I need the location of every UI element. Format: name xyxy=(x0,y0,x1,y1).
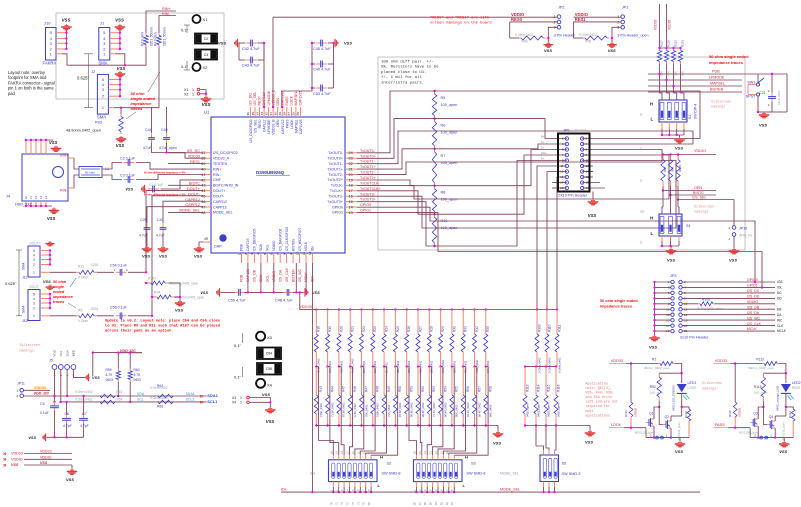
svg-text:Application: Application xyxy=(586,382,608,387)
wire S1 pin bottom xyxy=(661,122,663,129)
svg-text:DOUT+: DOUT+ xyxy=(30,241,41,245)
svg-text:R31: R31 xyxy=(464,326,468,332)
svg-text:DB: DB xyxy=(777,307,781,311)
resistor R32 xyxy=(474,310,476,334)
capacitor C6 4.7pF xyxy=(66,414,68,419)
resistor R119 gate pull xyxy=(630,364,632,403)
svg-text:H: H xyxy=(650,216,653,221)
wire array col to S2 pin xyxy=(355,426,364,456)
junction xyxy=(439,365,441,367)
resistor R57 xyxy=(474,367,476,395)
wire array col to S2 pin xyxy=(371,426,398,456)
svg-text:I2S_DC: I2S_DC xyxy=(187,149,201,153)
svg-text:0.1": 0.1" xyxy=(234,343,242,348)
junction xyxy=(25,205,27,207)
svg-text:I2S_CLK: I2S_CLK xyxy=(285,267,289,282)
svg-text:RIN-: RIN- xyxy=(213,173,221,177)
svg-text:MCLK: MCLK xyxy=(777,329,787,333)
svg-text:R20: R20 xyxy=(339,326,343,332)
svg-text:I2S_WC/GPIO7: I2S_WC/GPIO7 xyxy=(298,228,302,251)
svg-text:MCLK: MCLK xyxy=(747,327,757,331)
svg-text:31: 31 xyxy=(269,112,273,116)
svg-text:VSS: VSS xyxy=(585,440,593,445)
svg-text:VDD33: VDD33 xyxy=(299,304,313,309)
svg-text:R25: R25 xyxy=(396,326,400,332)
resistor R59 4.7K xyxy=(117,368,119,371)
junction xyxy=(433,90,435,92)
wire J5 SDA pin xyxy=(66,369,68,396)
svg-text:5: 5 xyxy=(263,253,267,255)
svg-text:BISTEN: BISTEN xyxy=(291,269,295,282)
wire array col to S2 pin xyxy=(330,426,339,456)
svg-text:R112: R112 xyxy=(756,358,764,362)
svg-text:Q4: Q4 xyxy=(769,415,774,419)
connector J12 SMA xyxy=(28,290,40,321)
svg-text:115K_0402: 115K_0402 xyxy=(353,403,357,417)
svg-text:0402_open: 0402_open xyxy=(546,403,550,417)
wire J11 gnd pins xyxy=(49,251,51,265)
wire TxOUT1- to JP5 xyxy=(357,131,693,164)
capacitor C45 4.7uF xyxy=(316,42,321,44)
wire C56 to DOUT- riser xyxy=(128,315,152,317)
svg-text:TxCLK-: TxCLK- xyxy=(331,184,344,188)
wire TxCLK- to JP5 xyxy=(357,155,669,199)
svg-text:80.6K_0402: 80.6K_0402 xyxy=(421,402,425,417)
svg-text:VDDIO: VDDIO xyxy=(668,19,672,30)
resistor R28 xyxy=(428,310,430,334)
wire R60 to SCL row xyxy=(129,382,131,402)
svg-text:98ohm_0402_open: 98ohm_0402_open xyxy=(644,366,670,370)
wire S1 bottom merge xyxy=(662,134,684,136)
svg-text:FAKRA: FAKRA xyxy=(43,61,57,66)
svg-text:20: 20 xyxy=(349,173,353,177)
svg-text:0 Ohm_0402: 0 Ohm_0402 xyxy=(557,357,561,373)
svg-text:R113: R113 xyxy=(525,384,529,392)
capacitor C53 4.7uF xyxy=(316,87,321,89)
svg-text:SDA: SDA xyxy=(137,392,145,396)
svg-text:DOUT-: DOUT- xyxy=(30,285,40,289)
dimension 0.625 inch xyxy=(88,54,90,108)
svg-text:VSS: VSS xyxy=(344,41,352,46)
wire Q2 drain xyxy=(670,416,672,421)
wire S2 pin stub xyxy=(370,455,372,460)
wire S3 pin bottom xyxy=(448,482,450,487)
ground VSS above J1 xyxy=(119,24,121,25)
wire JP3 odd pins bus xyxy=(654,282,656,335)
svg-text:R96: R96 xyxy=(522,39,528,43)
svg-text:TxOUT1+: TxOUT1+ xyxy=(360,165,376,169)
svg-text:RIN-: RIN- xyxy=(60,189,68,193)
resistor R46 xyxy=(349,367,351,395)
svg-text:R30: R30 xyxy=(452,326,456,332)
svg-text:TxOUT3-: TxOUT3- xyxy=(328,195,344,199)
wire CAPP12 to C25 xyxy=(147,207,203,223)
wire C7 dn xyxy=(83,424,85,438)
svg-text:0603: 0603 xyxy=(134,378,142,382)
IC U1 left pins 37-48 xyxy=(203,152,211,154)
svg-text:DOUT-: DOUT- xyxy=(213,195,225,199)
svg-text:VSS: VSS xyxy=(117,66,126,71)
ground VSS xyxy=(205,96,207,97)
svg-text:SW SMD-8: SW SMD-8 xyxy=(467,472,486,476)
junction xyxy=(311,63,313,65)
transistor Q1 BSS138 xyxy=(646,422,649,424)
svg-text:S5: S5 xyxy=(562,462,567,466)
svg-text:R118: R118 xyxy=(667,40,671,47)
svg-text:VSS: VSS xyxy=(675,146,683,151)
svg-text:28: 28 xyxy=(283,112,287,116)
IC U1 DS90UB926Q body xyxy=(211,117,345,253)
wire DOUT+ down xyxy=(146,190,203,272)
junction xyxy=(785,372,787,374)
wire pullup top rail xyxy=(660,47,681,49)
connector J11 SMA xyxy=(28,246,40,277)
wire VDD33 rail xyxy=(626,363,658,365)
junction xyxy=(548,491,550,493)
junction xyxy=(669,153,671,155)
wire R59/R60 drops xyxy=(117,353,119,369)
resistor R123 10K xyxy=(680,48,682,51)
svg-text:0402_open: 0402_open xyxy=(536,403,540,417)
wire bypass jog xyxy=(486,366,488,368)
junction xyxy=(428,365,430,367)
svg-text:R45: R45 xyxy=(342,386,346,392)
svg-text:3-: 3- xyxy=(640,241,643,245)
wire array col to S2 pin xyxy=(341,426,344,456)
svg-text:C53 4.7uF: C53 4.7uF xyxy=(313,92,331,96)
junction xyxy=(428,308,430,310)
svg-text:MODE_SEL: MODE_SEL xyxy=(179,209,200,213)
svg-text:100_open: 100_open xyxy=(441,198,458,202)
svg-text:VDD33: VDD33 xyxy=(40,450,52,454)
svg-text:namings: namings xyxy=(711,105,725,110)
svg-text:0402 LED_GREEN: 0402 LED_GREEN xyxy=(671,385,675,411)
capacitor C42 4.7uF xyxy=(246,42,251,44)
wire S2 pin stub xyxy=(338,455,340,460)
svg-text:screen namings on the board: screen namings on the board xyxy=(430,21,492,26)
junction xyxy=(53,436,55,438)
svg-text:GPIO1: GPIO1 xyxy=(332,211,343,215)
svg-text:BISTEN: BISTEN xyxy=(291,238,295,251)
svg-text:0.1": 0.1" xyxy=(181,64,189,69)
junction xyxy=(45,139,47,141)
junction xyxy=(653,297,655,299)
wire JP3 odd stub xyxy=(655,314,671,316)
wire L1 to C2 xyxy=(102,163,122,170)
svg-text:R9: R9 xyxy=(78,308,82,312)
junction xyxy=(555,365,557,367)
wire cap row xyxy=(221,291,235,293)
wire PDB to SW1 xyxy=(771,74,773,95)
svg-text:SMA: SMA xyxy=(99,61,108,66)
svg-text:I2S_WC: I2S_WC xyxy=(298,268,302,282)
svg-text:1: 1 xyxy=(102,106,104,110)
svg-text:13: 13 xyxy=(560,170,564,174)
svg-text:PASS: PASS xyxy=(715,423,725,427)
svg-text:10K: 10K xyxy=(674,71,678,76)
svg-text:VSS: VSS xyxy=(608,48,616,53)
junction xyxy=(426,491,428,493)
wire node to pull resistor xyxy=(659,372,682,374)
svg-text:J11: J11 xyxy=(22,276,28,280)
svg-text:11: 11 xyxy=(302,252,306,255)
wire DOUT- down xyxy=(152,196,203,316)
wire LED cathode xyxy=(681,393,683,416)
svg-text:I2S_DB: I2S_DB xyxy=(747,305,760,309)
svg-text:1+: 1+ xyxy=(541,140,545,144)
resistor R118 gate pull xyxy=(734,364,736,403)
svg-text:I2S_DB: I2S_DB xyxy=(253,269,257,282)
junction xyxy=(326,308,328,310)
junction xyxy=(205,93,207,95)
wire bypass jog xyxy=(418,366,420,368)
resistor R100 10K xyxy=(677,155,679,160)
svg-text:applications.: applications. xyxy=(586,413,612,418)
svg-text:R26: R26 xyxy=(407,326,411,332)
svg-text:RES0: RES0 xyxy=(258,119,262,128)
wire S3 pin stub xyxy=(421,455,423,460)
resistor R24 xyxy=(383,310,385,334)
wire TxOUT0- to JP5 xyxy=(357,91,700,153)
svg-text:1: 1 xyxy=(33,271,35,275)
svg-text:29: 29 xyxy=(278,112,282,116)
svg-text:SW SMD-3: SW SMD-3 xyxy=(562,472,581,476)
svg-text:MODE_SEL: MODE_SEL xyxy=(213,211,233,215)
junction xyxy=(653,308,655,310)
svg-text:0 Ohm 0402: 0 Ohm 0402 xyxy=(150,396,168,400)
junction xyxy=(547,37,549,39)
svg-text:71.5K_0402: 71.5K_0402 xyxy=(432,402,436,417)
junction xyxy=(761,286,763,288)
svg-text:0 Ohm_0402: 0 Ohm_0402 xyxy=(537,357,541,373)
junction xyxy=(315,365,317,367)
svg-text:BSS138_open: BSS138_open xyxy=(739,430,759,434)
resistor R8 100_open xyxy=(434,186,436,189)
svg-text:C40 4.7uF: C40 4.7uF xyxy=(313,68,331,72)
resistor R120 xyxy=(682,407,689,409)
wire S2 pin bottom xyxy=(370,482,372,487)
wire bypass jog xyxy=(316,366,318,368)
wire S1 pin bottom xyxy=(676,122,678,129)
svg-text:CAPL12: CAPL12 xyxy=(262,92,266,105)
wire JP3 row xyxy=(682,319,775,321)
resistor R3 0 ohm 0201 xyxy=(145,33,147,36)
svg-text:RES1: RES1 xyxy=(190,160,200,164)
wire bypass jog xyxy=(384,366,386,368)
svg-text:X2: X2 xyxy=(203,65,209,70)
svg-text:placed close to U1.: placed close to U1. xyxy=(381,70,427,75)
svg-text:VDD33_B: VDD33_B xyxy=(272,119,276,135)
wire I2S_SEL row xyxy=(678,199,734,201)
resistor R122 10K xyxy=(673,48,675,51)
junction xyxy=(485,424,487,426)
junction xyxy=(372,424,374,426)
svg-text:C45 4.7uF: C45 4.7uF xyxy=(313,47,331,51)
jumper circles xyxy=(760,436,763,439)
svg-text:I2S_DC/GPIO3: I2S_DC/GPIO3 xyxy=(249,119,253,142)
svg-text:VSS: VSS xyxy=(115,18,124,23)
svg-text:9: 9 xyxy=(289,253,293,255)
junction xyxy=(120,107,122,109)
wire JP3 row VDDIO xyxy=(682,303,698,305)
mount hole X2 xyxy=(193,63,201,71)
connector J1 (SMA) xyxy=(99,28,110,61)
junction xyxy=(49,293,51,295)
junction xyxy=(524,365,526,367)
jumper circles xyxy=(656,436,659,439)
junction xyxy=(151,315,153,317)
junction xyxy=(757,436,759,438)
svg-text:H: H xyxy=(650,102,653,107)
junction xyxy=(406,308,408,310)
svg-text:»: » xyxy=(3,462,7,469)
svg-text:SDA: SDA xyxy=(259,243,263,251)
svg-text:TxOUT1-: TxOUT1- xyxy=(360,160,376,164)
svg-text:VDDIO: VDDIO xyxy=(40,455,52,459)
wire bypass jog xyxy=(350,366,352,368)
wire JP3 odd stub xyxy=(655,303,671,305)
svg-text:10K: 10K xyxy=(667,71,671,76)
junction xyxy=(757,111,759,113)
resistor R93 48.9ohm xyxy=(120,114,122,117)
wire JP3 odd stub xyxy=(655,325,671,327)
junction xyxy=(662,153,664,155)
svg-text:SMA: SMA xyxy=(97,115,106,120)
wire J1 pin1 to shared pad bus xyxy=(115,54,125,65)
wire R95 to RES row xyxy=(573,37,583,39)
resistor R121 xyxy=(786,407,793,409)
svg-text:R7: R7 xyxy=(441,154,446,158)
svg-text:R28: R28 xyxy=(430,326,434,332)
resistor R26 xyxy=(406,310,408,334)
wire S5 pin bottom xyxy=(554,482,556,488)
svg-text:27: 27 xyxy=(287,112,291,116)
pin 49 DAP xyxy=(203,241,211,243)
svg-text:VDDIO: VDDIO xyxy=(694,149,706,153)
ground VSS below JP5 xyxy=(592,192,594,200)
svg-text:impedance traces: impedance traces xyxy=(709,60,744,65)
svg-text:R117: R117 xyxy=(660,40,664,47)
wire array col to S3 pin xyxy=(433,426,443,456)
wire power port xyxy=(24,458,72,460)
svg-text:0.1": 0.1" xyxy=(181,28,189,33)
junction xyxy=(383,365,385,367)
wire J5 VSS pin xyxy=(73,369,85,377)
capacitor C40 4.7uF xyxy=(316,63,321,65)
wire Q2 drain xyxy=(774,416,776,421)
svg-text:VDD33: VDD33 xyxy=(11,452,23,456)
capacitor footprint C3 xyxy=(195,50,217,60)
svg-text:TxOUT1-: TxOUT1- xyxy=(328,162,344,166)
junction xyxy=(734,362,736,364)
svg-text:VSS: VSS xyxy=(218,41,226,46)
svg-text:C54 0.1uF: C54 0.1uF xyxy=(110,263,128,267)
svg-text:46: 46 xyxy=(201,200,205,204)
svg-text:VSS: VSS xyxy=(72,349,76,356)
junction xyxy=(311,491,313,493)
junction xyxy=(653,330,655,332)
resistor R116 xyxy=(555,367,557,395)
svg-text:SDA1: SDA1 xyxy=(186,392,195,396)
wire riser to VDDIO rail xyxy=(272,17,274,107)
connector J10 (FAKRA) xyxy=(46,28,57,61)
svg-text:11: 11 xyxy=(560,164,563,168)
svg-text:CAPR12: CAPR12 xyxy=(213,200,227,204)
svg-text:X4: X4 xyxy=(232,401,236,405)
junction xyxy=(65,42,67,44)
junction xyxy=(661,245,663,247)
svg-text:1: 1 xyxy=(33,314,35,318)
wire R94 left xyxy=(152,296,154,298)
svg-text:R94: R94 xyxy=(154,291,160,295)
ground VSS right of C48 xyxy=(304,291,306,293)
ground VSS below C41 xyxy=(162,246,164,247)
junction xyxy=(658,47,660,49)
junction xyxy=(383,308,385,310)
junction xyxy=(451,365,453,367)
svg-text:Silkscreen: Silkscreen xyxy=(694,205,714,210)
DIP switch S1 SW DIP-4 xyxy=(659,100,687,122)
wire VDD33 bus xyxy=(300,309,558,311)
junction xyxy=(672,47,674,49)
svg-text:10: 10 xyxy=(586,159,590,163)
svg-text:15: 15 xyxy=(560,175,564,179)
junction xyxy=(332,491,334,493)
junction xyxy=(433,213,435,215)
svg-text:GPIO0: GPIO0 xyxy=(332,205,343,209)
wire bypass jog xyxy=(328,366,330,368)
wire R9 to C56 xyxy=(97,315,114,317)
svg-text:R33: R33 xyxy=(486,326,490,332)
svg-text:I2S_DO: I2S_DO xyxy=(249,93,253,106)
wire MCLK col xyxy=(305,263,307,292)
svg-text:VSS: VSS xyxy=(779,449,787,454)
svg-text:VSS: VSS xyxy=(266,419,275,424)
svg-text:SCL: SCL xyxy=(59,350,63,356)
svg-text:R5: R5 xyxy=(441,96,446,100)
wire bypass jog xyxy=(339,366,341,368)
svg-text:TxOUTCLK-: TxOUTCLK- xyxy=(360,181,381,185)
junction xyxy=(774,436,776,438)
svg-text:8: 8 xyxy=(282,253,286,255)
junction xyxy=(65,436,67,438)
junction xyxy=(653,286,655,288)
svg-text:RES1: RES1 xyxy=(575,17,587,22)
junction xyxy=(394,424,396,426)
svg-text:C44: C44 xyxy=(145,128,152,132)
svg-text:TxOUTCLK+: TxOUTCLK+ xyxy=(360,187,381,191)
svg-text:DOUT+: DOUT+ xyxy=(213,189,225,193)
svg-text:0+: 0+ xyxy=(541,135,545,139)
DAP pad xyxy=(220,235,226,241)
junction xyxy=(653,281,655,283)
dimension 0.625 xyxy=(18,250,20,316)
wire S4 pin bottom xyxy=(661,236,663,241)
wire node to pull resistor xyxy=(763,372,786,374)
svg-text:JP10: JP10 xyxy=(739,227,747,231)
svg-text:I2S_CLK/GPIO8: I2S_CLK/GPIO8 xyxy=(285,227,289,251)
svg-text:0.625": 0.625" xyxy=(5,281,17,286)
junction xyxy=(553,491,555,493)
svg-text:namings: namings xyxy=(694,210,708,215)
wire IDx col down xyxy=(312,263,314,492)
ground VSS LED block xyxy=(783,438,785,441)
junction xyxy=(338,365,340,367)
wire R107 left xyxy=(146,282,148,284)
wire bypass jog xyxy=(407,366,409,368)
ground VSS left of C42 xyxy=(238,42,240,44)
DIP switch S5 SW SMD-3 xyxy=(540,455,559,482)
